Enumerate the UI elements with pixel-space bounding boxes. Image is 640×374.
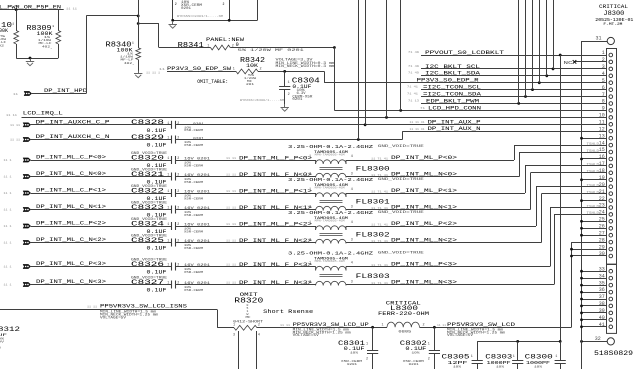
- svg-text:GND_VOID=TRUE: GND_VOID=TRUE: [378, 252, 424, 256]
- svg-text:10%: 10%: [534, 364, 542, 368]
- svg-text:11 11: 11 11: [226, 207, 236, 210]
- capacitor C8300: [560, 341, 562, 360]
- wire down to R8320: [217, 310, 219, 328]
- svg-text:X5R-CERM: X5R-CERM: [184, 196, 203, 200]
- svg-text:11 1: 11 1: [4, 209, 12, 212]
- svg-text:18: 18: [599, 168, 605, 174]
- svg-text:71 41: 71 41: [407, 86, 418, 89]
- svg-text:X5R-CERM: X5R-CERM: [184, 270, 203, 274]
- svg-text:MF: MF: [246, 315, 251, 319]
- svg-text:40: 40: [599, 315, 605, 321]
- wire bus stub pin 33: [582, 271, 607, 273]
- svg-text:1: 1: [207, 44, 209, 48]
- wire R8342 out: [258, 71, 324, 73]
- svg-text:8312: 8312: [0, 326, 20, 333]
- svg-text:CRITICAL: CRITICAL: [599, 3, 628, 10]
- svg-text:1: 1: [428, 342, 430, 346]
- svg-text:38: 38: [599, 301, 605, 307]
- svg-text:10%: 10%: [496, 364, 504, 368]
- capacitor C8305: [477, 341, 479, 360]
- pin 6: [609, 88, 613, 92]
- svg-text:C8322: C8322: [131, 187, 164, 194]
- svg-text:11 11: 11 11: [10, 139, 20, 142]
- svg-text:DP_INT_ML_F_N<3>: DP_INT_ML_F_N<3>: [239, 280, 312, 286]
- wire C8328 to pin 11: [175, 124, 606, 126]
- svg-text:MPN-TAMD605-4GM: MPN-TAMD605-4GM: [315, 153, 346, 156]
- svg-text:3: 3: [233, 333, 235, 337]
- svg-text:0201: 0201: [409, 362, 419, 366]
- svg-text:F-MT-2M: F-MT-2M: [603, 22, 622, 26]
- wire C8325 to FL: [175, 242, 315, 244]
- wire to cap: [31, 176, 172, 178]
- pin 23: [609, 206, 613, 210]
- svg-text:3: 3: [351, 206, 353, 210]
- svg-text:GND_VOID=TRUE: GND_VOID=TRUE: [378, 178, 424, 182]
- svg-text:71 49: 71 49: [408, 51, 419, 54]
- svg-text:2: 2: [175, 2, 177, 6]
- pin 39: [609, 311, 613, 315]
- svg-text:2: 2: [309, 239, 311, 243]
- svg-text:1: 1: [309, 155, 311, 159]
- ground: [30, 59, 32, 62]
- pin 37: [609, 297, 613, 301]
- svg-text:C8325: C8325: [131, 237, 164, 244]
- pin 7: [609, 95, 613, 99]
- svg-text:MIN_NECK_WIDTH=0.3 mm: MIN_NECK_WIDTH=0.3 mm: [276, 65, 335, 69]
- svg-text:GND_VOID=TRUE: GND_VOID=TRUE: [378, 145, 424, 149]
- svg-text:2: 2: [258, 323, 260, 327]
- pin 18: [609, 171, 613, 175]
- svg-text:FL8300: FL8300: [356, 166, 390, 174]
- pin 17: [609, 164, 613, 168]
- svg-text:11 71 41: 11 71 41: [371, 190, 388, 193]
- svg-text:31: 31: [595, 35, 601, 41]
- pin 22: [609, 199, 613, 203]
- svg-text:1: 1: [309, 261, 311, 265]
- svg-text:0805: 0805: [398, 330, 411, 334]
- pin 16: [609, 157, 613, 161]
- sense tap wires: [238, 331, 240, 369]
- pin 8: [609, 102, 613, 106]
- svg-text:NC: NC: [564, 60, 573, 66]
- pin 35: [609, 283, 613, 287]
- wire bus stub pin 34: [582, 278, 607, 280]
- svg-text:1: 1: [167, 174, 169, 178]
- svg-text:FL8303: FL8303: [356, 273, 390, 281]
- pin 3: [609, 67, 613, 71]
- svg-text:71 41: 71 41: [407, 92, 418, 95]
- wire bus stub pin 39: [582, 312, 607, 314]
- wire to cap: [31, 242, 172, 244]
- svg-text:11 1: 11 1: [4, 192, 12, 195]
- svg-text:0.1UF: 0.1UF: [147, 288, 167, 294]
- svg-text:0201: 0201: [292, 97, 302, 101]
- svg-text:0201: 0201: [181, 6, 191, 10]
- svg-text:11: 11: [13, 93, 18, 96]
- svg-text:LCD_IRQ_L: LCD_IRQ_L: [23, 111, 63, 117]
- svg-text:3: 3: [602, 64, 605, 70]
- svg-text:TSHLD: TSHLD: [587, 143, 600, 147]
- wire branch to R8341: [138, 23, 159, 25]
- svg-text:1: 1: [52, 25, 54, 28]
- svg-text:11 11: 11 11: [226, 223, 236, 226]
- pin 28: [609, 240, 613, 244]
- svg-text:11 11: 11 11: [6, 114, 17, 117]
- svg-text:DP_INT_ML_C_N<3>: DP_INT_ML_C_N<3>: [36, 278, 107, 285]
- wire C8327 to FL: [175, 284, 315, 286]
- pin 31: [582, 41, 608, 43]
- svg-text:402: 402: [124, 61, 132, 65]
- svg-text:DP_INT_ML_F_P<3>: DP_INT_ML_F_P<3>: [239, 262, 312, 268]
- svg-text:GND_VOID=TRUE: GND_VOID=TRUE: [378, 211, 424, 215]
- pin 15: [609, 150, 613, 154]
- svg-text:11: 11: [159, 68, 165, 71]
- wire to C8329: [31, 139, 172, 141]
- svg-text:DP_INT_ML_F_P<1>: DP_INT_ML_F_P<1>: [239, 188, 312, 194]
- svg-text:J8300: J8300: [603, 10, 624, 17]
- svg-text:4: 4: [351, 155, 353, 159]
- svg-text:11 11: 11 11: [66, 7, 77, 10]
- svg-text:2: 2: [309, 281, 311, 285]
- svg-text:DP_INT_ML_F_P<2>: DP_INT_ML_F_P<2>: [239, 221, 312, 227]
- svg-text:DP_INT_ML_P<0>: DP_INT_ML_P<0>: [391, 155, 457, 161]
- svg-text:0201: 0201: [347, 362, 357, 366]
- svg-text:1: 1: [167, 240, 169, 244]
- svg-text:02: 02: [0, 43, 4, 47]
- node junction to R8341 branch: [137, 22, 140, 25]
- svg-text:DP_INT_ML_C_N<2>: DP_INT_ML_C_N<2>: [36, 236, 107, 243]
- svg-text:X5R-CERM: X5R-CERM: [184, 163, 203, 167]
- wire bus stub pin 27: [582, 235, 607, 237]
- wire bus stub pin 36: [582, 292, 607, 294]
- svg-text:11 11: 11 11: [226, 157, 236, 160]
- svg-text:TSHLD: TSHLD: [587, 150, 600, 154]
- svg-text:C8321: C8321: [131, 171, 164, 178]
- svg-text:4: 4: [351, 188, 353, 192]
- svg-text:10%: 10%: [350, 351, 358, 355]
- svg-text:2: 2: [288, 93, 290, 97]
- svg-text:1: 1: [309, 221, 311, 225]
- capacitor C8302: [434, 327, 436, 350]
- svg-text:DP_INT_ML_C_N<1>: DP_INT_ML_C_N<1>: [36, 203, 107, 210]
- svg-text:DP_INT_ML_C_N<0>: DP_INT_ML_C_N<0>: [36, 170, 107, 177]
- pin 38: [609, 304, 613, 308]
- svg-text:11 1: 11 1: [4, 284, 12, 287]
- NC pin 2: [575, 61, 607, 63]
- svg-text:0.1UF: 0.1UF: [147, 246, 167, 252]
- svg-text:201: 201: [246, 82, 254, 86]
- connector J8300 body: [607, 49, 617, 265]
- wire to cap: [31, 266, 172, 268]
- svg-text:C8305: C8305: [442, 353, 470, 360]
- wire to cap: [31, 226, 172, 228]
- svg-text:DP_INT_ML_P<1>: DP_INT_ML_P<1>: [391, 188, 457, 194]
- pin 41: [609, 325, 613, 329]
- svg-text:11 1: 11 1: [4, 176, 12, 179]
- pin 36: [609, 290, 613, 294]
- svg-text:10%: 10%: [412, 351, 420, 355]
- svg-text:MPN-TAMD605-4GM: MPN-TAMD605-4GM: [315, 219, 346, 222]
- wire C8321 to FL: [175, 176, 315, 178]
- svg-text:PANEL:NEW: PANEL:NEW: [206, 37, 245, 43]
- svg-text:C8327: C8327: [131, 279, 164, 286]
- wire C8329 jog to pin 12: [175, 139, 402, 141]
- svg-text:X5R-CERM: X5R-CERM: [184, 213, 203, 217]
- svg-text:X5R-CERM: X5R-CERM: [184, 143, 203, 147]
- svg-text:30: 30: [599, 251, 605, 257]
- pin 19: [609, 178, 613, 182]
- pin 20: [609, 185, 613, 189]
- pin 25: [609, 220, 613, 224]
- svg-text:X5R-CERM: X5R-CERM: [184, 229, 203, 233]
- pin 32: [582, 341, 608, 343]
- svg-text:11 1: 11 1: [4, 225, 12, 228]
- svg-text:0.1UF: 0.1UF: [147, 143, 167, 149]
- svg-text:402: 402: [42, 45, 50, 49]
- svg-text:DP_INT_ML_C_P<3>: DP_INT_ML_C_P<3>: [36, 260, 107, 267]
- svg-text:1: 1: [167, 122, 169, 126]
- svg-text:2: 2: [177, 122, 179, 126]
- svg-text:R8341: R8341: [178, 42, 204, 50]
- pin 11: [609, 123, 613, 127]
- svg-text:3: 3: [351, 173, 353, 177]
- wire bus stub pin 38: [582, 305, 607, 307]
- svg-text:2: 2: [309, 206, 311, 210]
- svg-text:FERR-220-OHM: FERR-220-OHM: [378, 311, 429, 317]
- svg-text:DP_INT_ML_C_P<0>: DP_INT_ML_C_P<0>: [36, 154, 107, 161]
- wire to cap: [31, 160, 172, 162]
- svg-text:X5R-CERM: X5R-CERM: [184, 180, 203, 184]
- svg-text:11 1: 11 1: [4, 159, 12, 162]
- svg-text:11 11: 11 11: [280, 324, 290, 327]
- wire C8322 to FL: [175, 193, 315, 195]
- svg-text:OMIT_TABLE:: OMIT_TABLE:: [197, 79, 228, 85]
- svg-text:518S0829: 518S0829: [594, 350, 633, 357]
- ground under R8340: [138, 71, 140, 74]
- wire bus stub pin 22: [582, 200, 607, 202]
- svg-text:1: 1: [555, 355, 557, 359]
- svg-text:11 1: 11 1: [4, 266, 12, 269]
- pin 13: [609, 136, 613, 140]
- pin 9: [609, 109, 613, 113]
- svg-text:41: 41: [599, 322, 605, 328]
- wire bus stub pin 13: [582, 138, 607, 140]
- svg-text:1: 1: [12, 23, 14, 26]
- svg-text:4: 4: [351, 261, 353, 265]
- svg-text:11 11: 11 11: [226, 174, 236, 177]
- svg-text:DP_INT_ML_F_N<1>: DP_INT_ML_F_N<1>: [239, 205, 312, 211]
- pin 1: [609, 53, 613, 57]
- svg-text:1: 1: [167, 137, 169, 141]
- svg-text:2: 2: [309, 173, 311, 177]
- wire bus stub pin 26: [582, 228, 607, 230]
- ground under cap block: [172, 21, 174, 24]
- pin 29: [609, 247, 613, 251]
- pin 12: [609, 129, 613, 133]
- wire bus stub pin 37: [582, 299, 607, 301]
- pin 5: [609, 81, 613, 85]
- svg-text:4: 4: [258, 333, 260, 337]
- pin 2: [609, 60, 613, 64]
- svg-text:MPN-TAMD605-4GM: MPN-TAMD605-4GM: [315, 186, 346, 189]
- wire bus stub pin 41: [582, 326, 607, 328]
- svg-text:BYPASS=JK300/1-...-NM: BYPASS=JK300/1-...-NM: [240, 98, 284, 102]
- wire C8323 to FL: [175, 209, 315, 211]
- svg-text:DP_INT_AUX_N: DP_INT_AUX_N: [428, 126, 481, 132]
- pin 30: [609, 254, 613, 258]
- pin 26: [609, 227, 613, 231]
- wire bus stub pin 16: [582, 158, 607, 160]
- svg-text:MPN-TAMD605-4GM: MPN-TAMD605-4GM: [315, 260, 346, 263]
- svg-text:0.1UF: 0.1UF: [147, 128, 167, 134]
- svg-text:1: 1: [167, 264, 169, 268]
- svg-text:0V: 0V: [0, 339, 4, 343]
- vertical PPVOUT column: [560, 55, 562, 341]
- svg-text:R8320: R8320: [234, 297, 263, 305]
- wire to cap: [31, 284, 172, 286]
- svg-text:2: 2: [428, 357, 430, 361]
- svg-text:VOLTAGE=5V: VOLTAGE=5V: [293, 333, 319, 337]
- svg-text:1: 1: [309, 188, 311, 192]
- svg-text:1: 1: [366, 342, 368, 346]
- pin 21: [609, 192, 613, 196]
- svg-text:11 11: 11 11: [226, 190, 236, 193]
- svg-text:16: 16: [599, 154, 605, 160]
- svg-text:DP_INT_ML_F_N<2>: DP_INT_ML_F_N<2>: [239, 238, 312, 244]
- svg-text:1: 1: [288, 81, 290, 85]
- svg-text:3: 3: [351, 239, 353, 243]
- svg-text:0.1UF: 0.1UF: [147, 270, 167, 276]
- wire DP_INT_HPD: [32, 93, 86, 95]
- capacitor C8304: [284, 71, 286, 86]
- svg-text:X5R-CERM: X5R-CERM: [184, 246, 203, 250]
- capacitor C8303: [517, 341, 519, 360]
- wire C8326 to FL: [175, 266, 315, 268]
- wire PP5VR3V3 to pins 28,29,30: [572, 242, 607, 244]
- svg-text:3.25-OHM-0.1A-2.4GHZ: 3.25-OHM-0.1A-2.4GHZ: [288, 251, 373, 257]
- svg-text:FL8302: FL8302: [356, 232, 390, 240]
- svg-text:FL8301: FL8301: [356, 199, 390, 207]
- wire bus stub pin 40: [582, 319, 607, 321]
- svg-text:71 49: 71 49: [408, 72, 419, 75]
- wire joining resistor bottoms: [16, 58, 58, 60]
- wire to cap: [31, 193, 172, 195]
- pin 4: [609, 74, 613, 78]
- svg-text:11 11: 11 11: [10, 124, 20, 127]
- svg-text:C8300: C8300: [525, 353, 553, 360]
- capacitor C8301: [372, 327, 374, 350]
- pin 14: [609, 143, 613, 147]
- svg-text:VOLTAGE=5V: VOLTAGE=5V: [447, 333, 473, 337]
- svg-text:3.25-OHM-0.1A-2.4GHZ: 3.25-OHM-0.1A-2.4GHZ: [288, 144, 373, 150]
- svg-text:1: 1: [167, 282, 169, 286]
- svg-text:11 71 41: 11 71 41: [371, 157, 388, 160]
- svg-text:71 49: 71 49: [408, 65, 419, 68]
- pin 24: [609, 213, 613, 217]
- wire C8320 to FL: [175, 160, 315, 162]
- shield bus TSHLD vertical: [581, 41, 583, 369]
- svg-text:2: 2: [602, 57, 605, 63]
- svg-text:11 11 41: 11 11 41: [410, 121, 425, 124]
- svg-text:VOLTAGE=5V: VOLTAGE=5V: [100, 315, 126, 319]
- resistor R8340: [138, 0, 140, 48]
- svg-text:71 13: 71 13: [408, 99, 419, 102]
- pin 33: [609, 269, 613, 273]
- svg-text:11 1: 11 1: [4, 242, 12, 245]
- svg-text:DP_INT_ML_P<2>: DP_INT_ML_P<2>: [391, 221, 457, 227]
- svg-text:DP_INT_ML_C_P<1>: DP_INT_ML_C_P<1>: [36, 187, 107, 194]
- pin 10: [609, 116, 613, 120]
- svg-text:DP_INT_ML_C_P<2>: DP_INT_ML_C_P<2>: [36, 220, 107, 227]
- svg-text:32: 32: [595, 336, 601, 342]
- svg-text:C8326: C8326: [131, 261, 164, 268]
- svg-text:X5R-CERM: X5R-CERM: [184, 128, 203, 132]
- wire to C8328: [31, 124, 172, 126]
- svg-text:71: 71: [420, 107, 425, 110]
- wire L8300 to right: [420, 327, 572, 329]
- svg-text:C8324: C8324: [131, 220, 164, 227]
- wire bus stub pin 25: [582, 221, 607, 223]
- svg-text:1: 1: [233, 323, 235, 327]
- svg-text:1: 1: [471, 355, 473, 359]
- bypass capacitor block (top edge): [172, 0, 174, 20]
- svg-text:1: 1: [167, 157, 169, 161]
- svg-text:11 11: 11 11: [226, 240, 236, 243]
- svg-text:11 11: 11 11: [437, 324, 446, 327]
- svg-text:4: 4: [602, 71, 605, 77]
- svg-text:11 11: 11 11: [226, 264, 236, 267]
- svg-text:C8320: C8320: [131, 154, 164, 161]
- svg-text:11 11 1: 11 11 1: [146, 71, 160, 74]
- pin 27: [609, 233, 613, 237]
- svg-text:1: 1: [167, 223, 169, 227]
- svg-text:X5R-CERM: X5R-CERM: [184, 288, 203, 292]
- svg-text:10K: 10K: [246, 63, 259, 69]
- svg-text:10%: 10%: [453, 364, 461, 368]
- ground under C8304: [284, 104, 286, 107]
- cap rail for C8305/C8303/C8300: [477, 341, 560, 343]
- svg-text:3.25-OHM-0.1A-2.4GHZ: 3.25-OHM-0.1A-2.4GHZ: [288, 210, 373, 216]
- svg-text:3: 3: [351, 281, 353, 285]
- svg-text:Short Rsense: Short Rsense: [263, 308, 314, 315]
- svg-text:19: 19: [599, 175, 605, 181]
- svg-text:11 11: 11 11: [226, 282, 236, 285]
- svg-text:C8303: C8303: [485, 353, 512, 360]
- wire C8324 to FL: [175, 226, 315, 228]
- svg-text:5% 1/20W MF 0201: 5% 1/20W MF 0201: [238, 48, 304, 53]
- svg-text:17: 17: [599, 161, 605, 167]
- wire R8341 to LCD_HPD_CONN: [230, 47, 334, 49]
- svg-text:DP_INT_ML_F_P<0>: DP_INT_ML_F_P<0>: [239, 155, 312, 161]
- svg-text:1: 1: [167, 190, 169, 194]
- svg-text:1: 1: [513, 355, 515, 359]
- svg-text:11 11 41: 11 11 41: [410, 128, 425, 131]
- wire to cap: [31, 209, 172, 211]
- wire bus stub pin 19: [582, 179, 607, 181]
- svg-text:C8329: C8329: [131, 134, 164, 141]
- svg-text:39: 39: [599, 308, 605, 314]
- svg-text:2: 2: [223, 2, 225, 6]
- svg-text:1: 1: [233, 68, 235, 72]
- svg-text:11 71 41: 11 71 41: [371, 223, 388, 226]
- pin 34: [609, 276, 613, 280]
- svg-text:C8323: C8323: [131, 204, 164, 211]
- svg-text:1: 1: [167, 207, 169, 211]
- svg-text:C8328: C8328: [131, 119, 164, 126]
- svg-text:DP_INT_ML_F_N<0>: DP_INT_ML_F_N<0>: [239, 172, 312, 178]
- svg-text:11 11: 11 11: [87, 305, 97, 308]
- svg-text:1: 1: [132, 42, 134, 45]
